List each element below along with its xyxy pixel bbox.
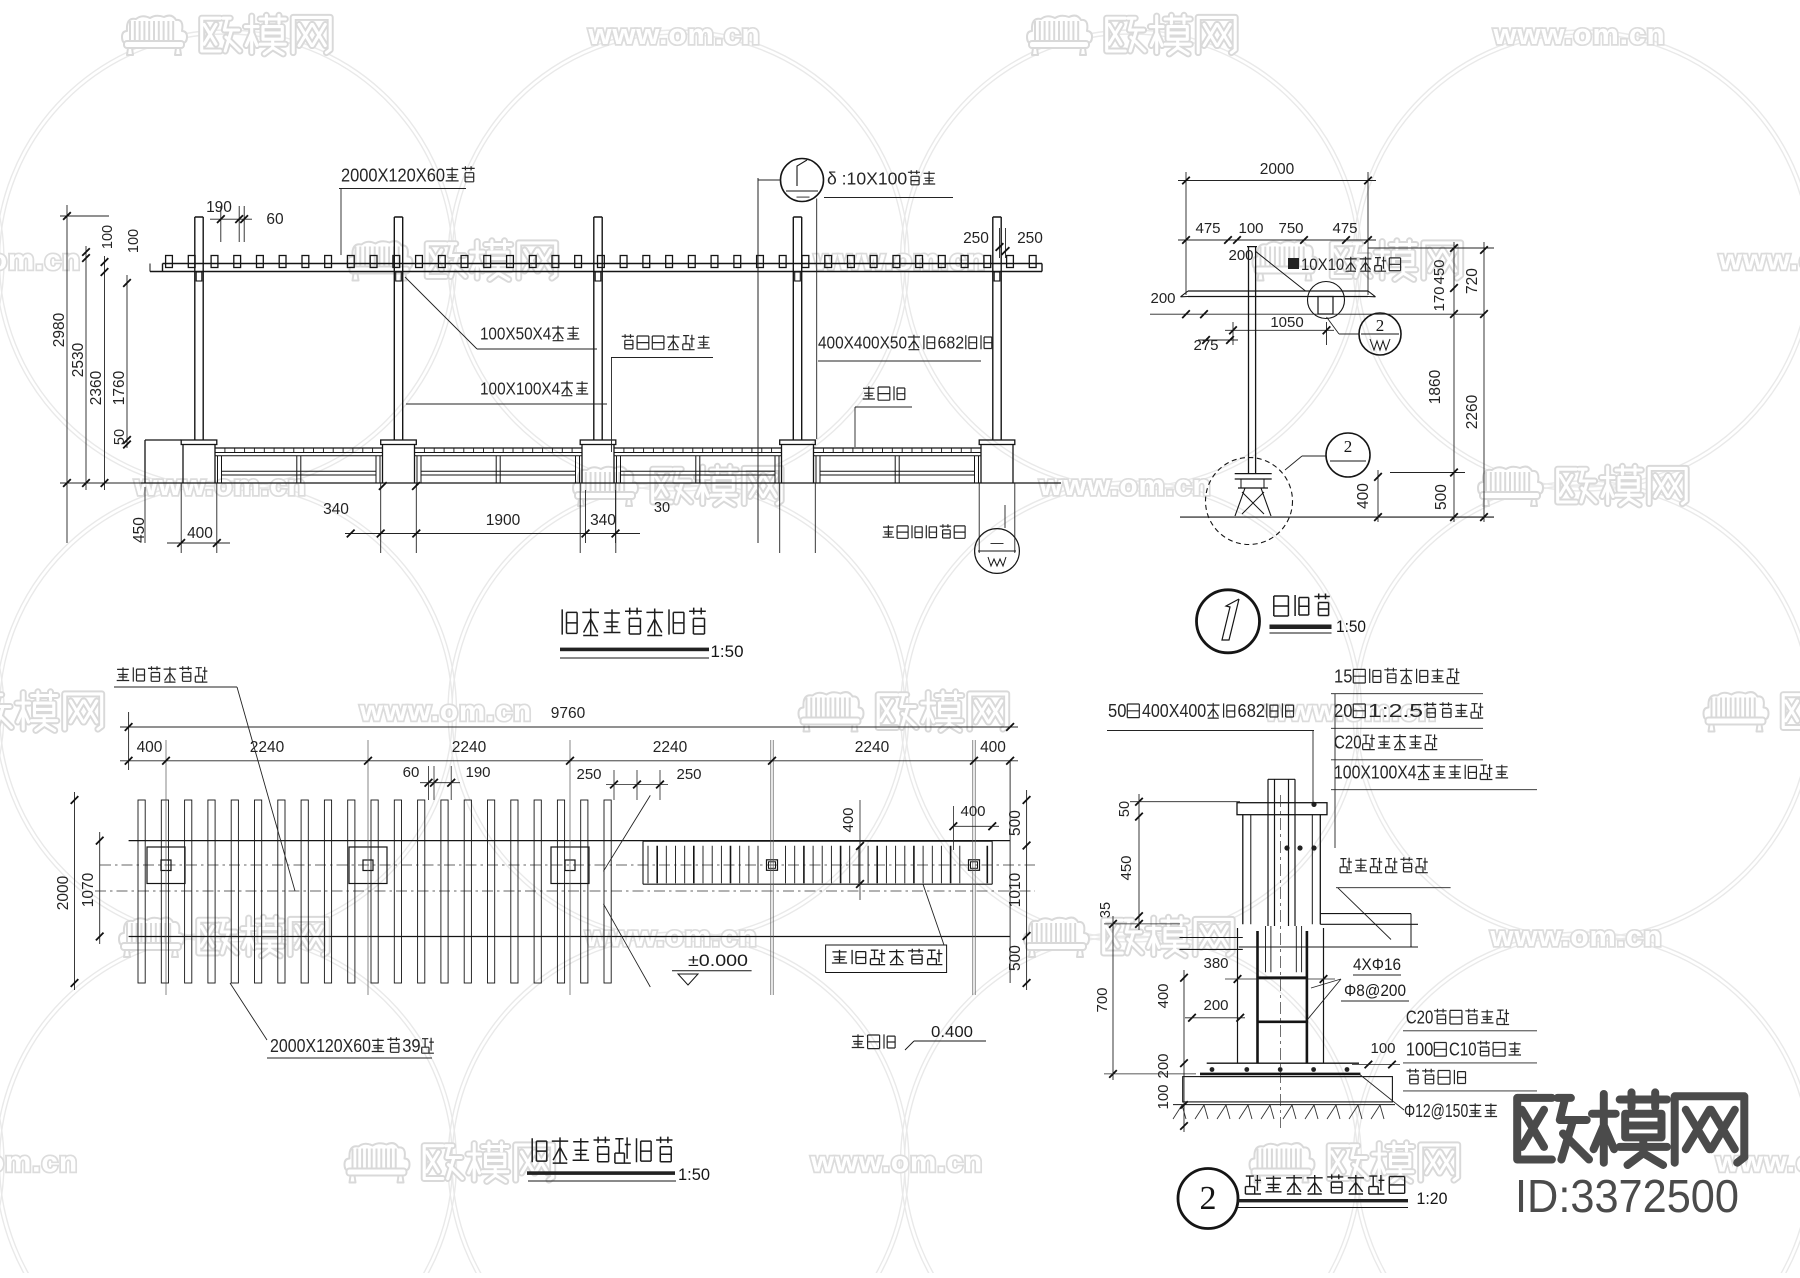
svg-text:200: 200 <box>1228 247 1253 264</box>
svg-text:www.om.cn: www.om.cn <box>1492 19 1665 51</box>
svg-text:400X400: 400X400 <box>1142 701 1206 721</box>
svg-text:2: 2 <box>1376 316 1385 335</box>
svg-text:682: 682 <box>1238 701 1266 721</box>
svg-text:682: 682 <box>937 333 964 353</box>
svg-text:—: — <box>991 535 1004 550</box>
svg-text:2240: 2240 <box>250 739 285 756</box>
elevation drawing: pergola front view (top-left) <box>166 256 173 268</box>
svg-text:2: 2 <box>1344 437 1353 456</box>
svg-text:9760: 9760 <box>551 705 586 722</box>
svg-text:1900: 1900 <box>486 512 521 529</box>
svg-text:Φ12@150: Φ12@150 <box>1404 1101 1468 1121</box>
svg-text:50: 50 <box>1108 701 1126 721</box>
svg-text:200: 200 <box>1150 290 1175 307</box>
background swirl ornament circles <box>0 30 4 491</box>
svg-text:δ :10X100: δ :10X100 <box>827 169 907 189</box>
svg-text:2000: 2000 <box>1260 161 1295 178</box>
svg-text:1:50: 1:50 <box>678 1165 710 1184</box>
svg-text:www.om.cn: www.om.cn <box>587 19 760 51</box>
large corner logo and ID <box>1517 1098 1589 1160</box>
svg-text:1760: 1760 <box>111 370 128 405</box>
svg-text:450: 450 <box>1431 259 1448 284</box>
svg-text:190: 190 <box>206 199 232 216</box>
svg-text:450: 450 <box>131 517 148 543</box>
svg-text:100: 100 <box>1406 1040 1434 1060</box>
svg-text:1:20: 1:20 <box>1417 1190 1448 1208</box>
svg-text:www.om.cn: www.om.cn <box>1038 470 1211 502</box>
svg-text:0.400: 0.400 <box>931 1024 973 1041</box>
svg-text:1860: 1860 <box>1427 369 1444 404</box>
svg-text:50: 50 <box>1117 801 1133 817</box>
svg-text:400: 400 <box>137 739 163 756</box>
svg-text:250: 250 <box>1017 230 1043 247</box>
svg-text:1050: 1050 <box>1270 314 1303 331</box>
svg-text:450: 450 <box>1118 855 1135 880</box>
svg-text:190: 190 <box>465 764 490 781</box>
svg-text:400: 400 <box>980 739 1006 756</box>
svg-text:380: 380 <box>1203 955 1228 972</box>
svg-text:C20: C20 <box>1334 733 1362 753</box>
svg-text:1:2.5: 1:2.5 <box>1368 701 1423 721</box>
svg-text:475: 475 <box>1195 220 1220 237</box>
svg-text:50: 50 <box>112 429 128 445</box>
svg-text:500: 500 <box>1007 945 1024 971</box>
svg-text:—: — <box>797 189 810 204</box>
svg-text:Φ8@200: Φ8@200 <box>1344 982 1406 1000</box>
svg-text:400: 400 <box>187 525 213 542</box>
svg-text:www.om.cn: www.om.cn <box>0 245 81 277</box>
plan drawing (bottom-left) <box>95 865 1035 891</box>
svg-text:750: 750 <box>1278 220 1303 237</box>
svg-text:±0.000: ±0.000 <box>688 951 748 970</box>
watermark lattice: sofa+brand marks and www.om.cn marks <box>122 16 187 55</box>
section drawing (top-right) <box>1288 258 1299 269</box>
svg-text:250: 250 <box>576 766 601 783</box>
svg-text:35: 35 <box>1098 902 1114 918</box>
pier foundation detail drawing (bottom-right) <box>1311 802 1316 807</box>
svg-text:340: 340 <box>590 512 616 529</box>
svg-text:500: 500 <box>1007 810 1024 836</box>
svg-text:200: 200 <box>1155 1053 1172 1078</box>
svg-text:170: 170 <box>1431 286 1448 311</box>
svg-text:10X10: 10X10 <box>1301 255 1344 274</box>
svg-text:1070: 1070 <box>80 872 97 907</box>
svg-text:C10: C10 <box>1449 1040 1477 1060</box>
svg-text:4XΦ16: 4XΦ16 <box>1353 956 1401 974</box>
svg-text:475: 475 <box>1332 220 1357 237</box>
svg-text:400: 400 <box>1355 483 1372 509</box>
svg-text:60: 60 <box>403 764 420 781</box>
svg-text:200: 200 <box>1203 997 1228 1014</box>
svg-text:400X400X50: 400X400X50 <box>818 333 907 353</box>
svg-text:2000X120X60: 2000X120X60 <box>270 1036 371 1056</box>
svg-text:ID:3372500: ID:3372500 <box>1515 1170 1739 1222</box>
svg-text:720: 720 <box>1464 268 1481 294</box>
svg-text:www.om.cn: www.om.cn <box>1718 245 1800 277</box>
svg-text:2240: 2240 <box>653 739 688 756</box>
svg-text:2000X120X60: 2000X120X60 <box>341 164 445 185</box>
svg-text:1:50: 1:50 <box>711 642 744 661</box>
svg-text:250: 250 <box>676 766 701 783</box>
svg-text:100: 100 <box>1238 220 1263 237</box>
svg-text:C20: C20 <box>1406 1007 1434 1027</box>
svg-text:400: 400 <box>840 807 857 832</box>
svg-text:2980: 2980 <box>51 312 68 347</box>
svg-text:2240: 2240 <box>452 739 487 756</box>
svg-text:1010: 1010 <box>1007 872 1024 907</box>
svg-text:www.om.cn: www.om.cn <box>0 1147 78 1179</box>
svg-text:www.om.cn: www.om.cn <box>359 696 532 728</box>
svg-text:2000: 2000 <box>55 875 72 910</box>
svg-text:250: 250 <box>963 230 989 247</box>
svg-text:100X100X4: 100X100X4 <box>480 379 560 399</box>
svg-text:100: 100 <box>1370 1040 1395 1057</box>
svg-text:30: 30 <box>654 500 670 516</box>
svg-text:100: 100 <box>126 229 142 253</box>
svg-text:400: 400 <box>1155 983 1172 1008</box>
svg-text:www.om.cn: www.om.cn <box>1489 921 1662 953</box>
svg-text:www.om.cn: www.om.cn <box>810 1147 983 1179</box>
svg-text:60: 60 <box>266 211 284 228</box>
svg-text:340: 340 <box>323 501 349 518</box>
svg-text:700: 700 <box>1094 987 1111 1012</box>
svg-text:2530: 2530 <box>70 342 87 377</box>
svg-text:275: 275 <box>1193 337 1218 354</box>
svg-text:2360: 2360 <box>88 370 105 405</box>
svg-text:500: 500 <box>1433 484 1450 510</box>
svg-text:39: 39 <box>402 1036 420 1056</box>
svg-text:100X50X4: 100X50X4 <box>480 324 552 344</box>
svg-text:100: 100 <box>100 225 116 249</box>
svg-text:400: 400 <box>960 803 985 820</box>
svg-text:2: 2 <box>1200 1180 1217 1217</box>
svg-text:1:50: 1:50 <box>1336 618 1366 636</box>
svg-text:100: 100 <box>1155 1084 1172 1109</box>
svg-text:15: 15 <box>1334 666 1352 686</box>
svg-text:100X100X4: 100X100X4 <box>1334 762 1417 782</box>
svg-text:20: 20 <box>1334 701 1352 721</box>
svg-text:2260: 2260 <box>1464 394 1481 429</box>
svg-text:2240: 2240 <box>855 739 890 756</box>
